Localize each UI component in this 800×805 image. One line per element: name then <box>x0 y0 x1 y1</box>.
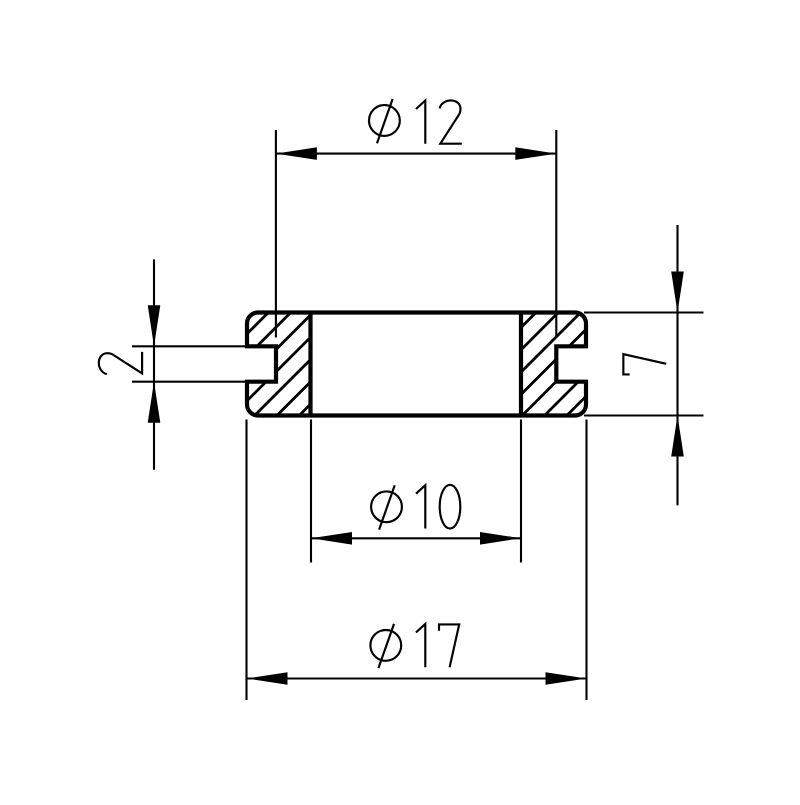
extension line left (dim Ø12) <box>275 130 277 338</box>
extension line top (dim 2) / groove top edge extension <box>132 345 248 347</box>
text Ø12 digit 1 <box>416 101 425 144</box>
text Ø12 digit 2 <box>440 100 462 143</box>
text 2 (rotated 90deg) <box>99 352 142 374</box>
dimension line 7 (vertical) <box>676 225 678 505</box>
extension line left (dim Ø17) <box>245 420 247 701</box>
text Ø17 diameter symbol <box>370 630 401 661</box>
extension line right (dim Ø10) <box>520 420 522 563</box>
arrowhead left (dim Ø12) <box>276 147 317 160</box>
text Ø10 digit 1 <box>416 485 425 528</box>
inner hole left edge line <box>308 313 312 416</box>
arrowhead right (dim Ø12) <box>515 147 556 160</box>
grommet outer profile outline (section view) <box>247 313 586 416</box>
arrowhead right (dim Ø10) <box>480 532 521 545</box>
dimension line Ø17 <box>247 677 587 679</box>
arrowhead top (dim 7, pointing down) <box>671 272 684 313</box>
extension line bottom (dim 7) <box>584 414 704 416</box>
dimension line 2 (vertical) <box>153 259 155 469</box>
extension line left (dim Ø10) <box>310 420 312 563</box>
dimension line Ø12 <box>276 153 556 155</box>
inner hole right edge line <box>519 313 523 416</box>
arrowhead bottom (dim 2, pointing up) <box>148 382 161 423</box>
arrowhead left (dim Ø10) <box>311 532 352 545</box>
text Ø10 diameter symbol <box>371 491 402 522</box>
extension line top (dim 7) <box>584 311 704 313</box>
arrowhead top (dim 2, pointing down) <box>148 305 161 346</box>
dimension line Ø10 <box>311 537 521 539</box>
arrowhead left (dim Ø17) <box>247 672 288 685</box>
arrowhead bottom (dim 7, pointing up) <box>671 416 684 457</box>
extension line bottom (dim 2) / groove bottom edge extension <box>132 381 248 383</box>
text Ø10 digit 0 <box>440 485 461 529</box>
extension line right (dim Ø17) <box>585 420 587 701</box>
arrowhead right (dim Ø17) <box>546 672 587 685</box>
text 7 (rotated 90deg) <box>623 354 666 374</box>
text Ø17 digit 1 <box>416 624 425 667</box>
text Ø17 digit 7 <box>439 624 459 667</box>
hatching right wall of grommet section <box>129 298 707 430</box>
text Ø12 diameter symbol <box>369 105 400 136</box>
extension line right (dim Ø12) <box>555 130 557 336</box>
hatching left wall of grommet section <box>129 298 707 430</box>
